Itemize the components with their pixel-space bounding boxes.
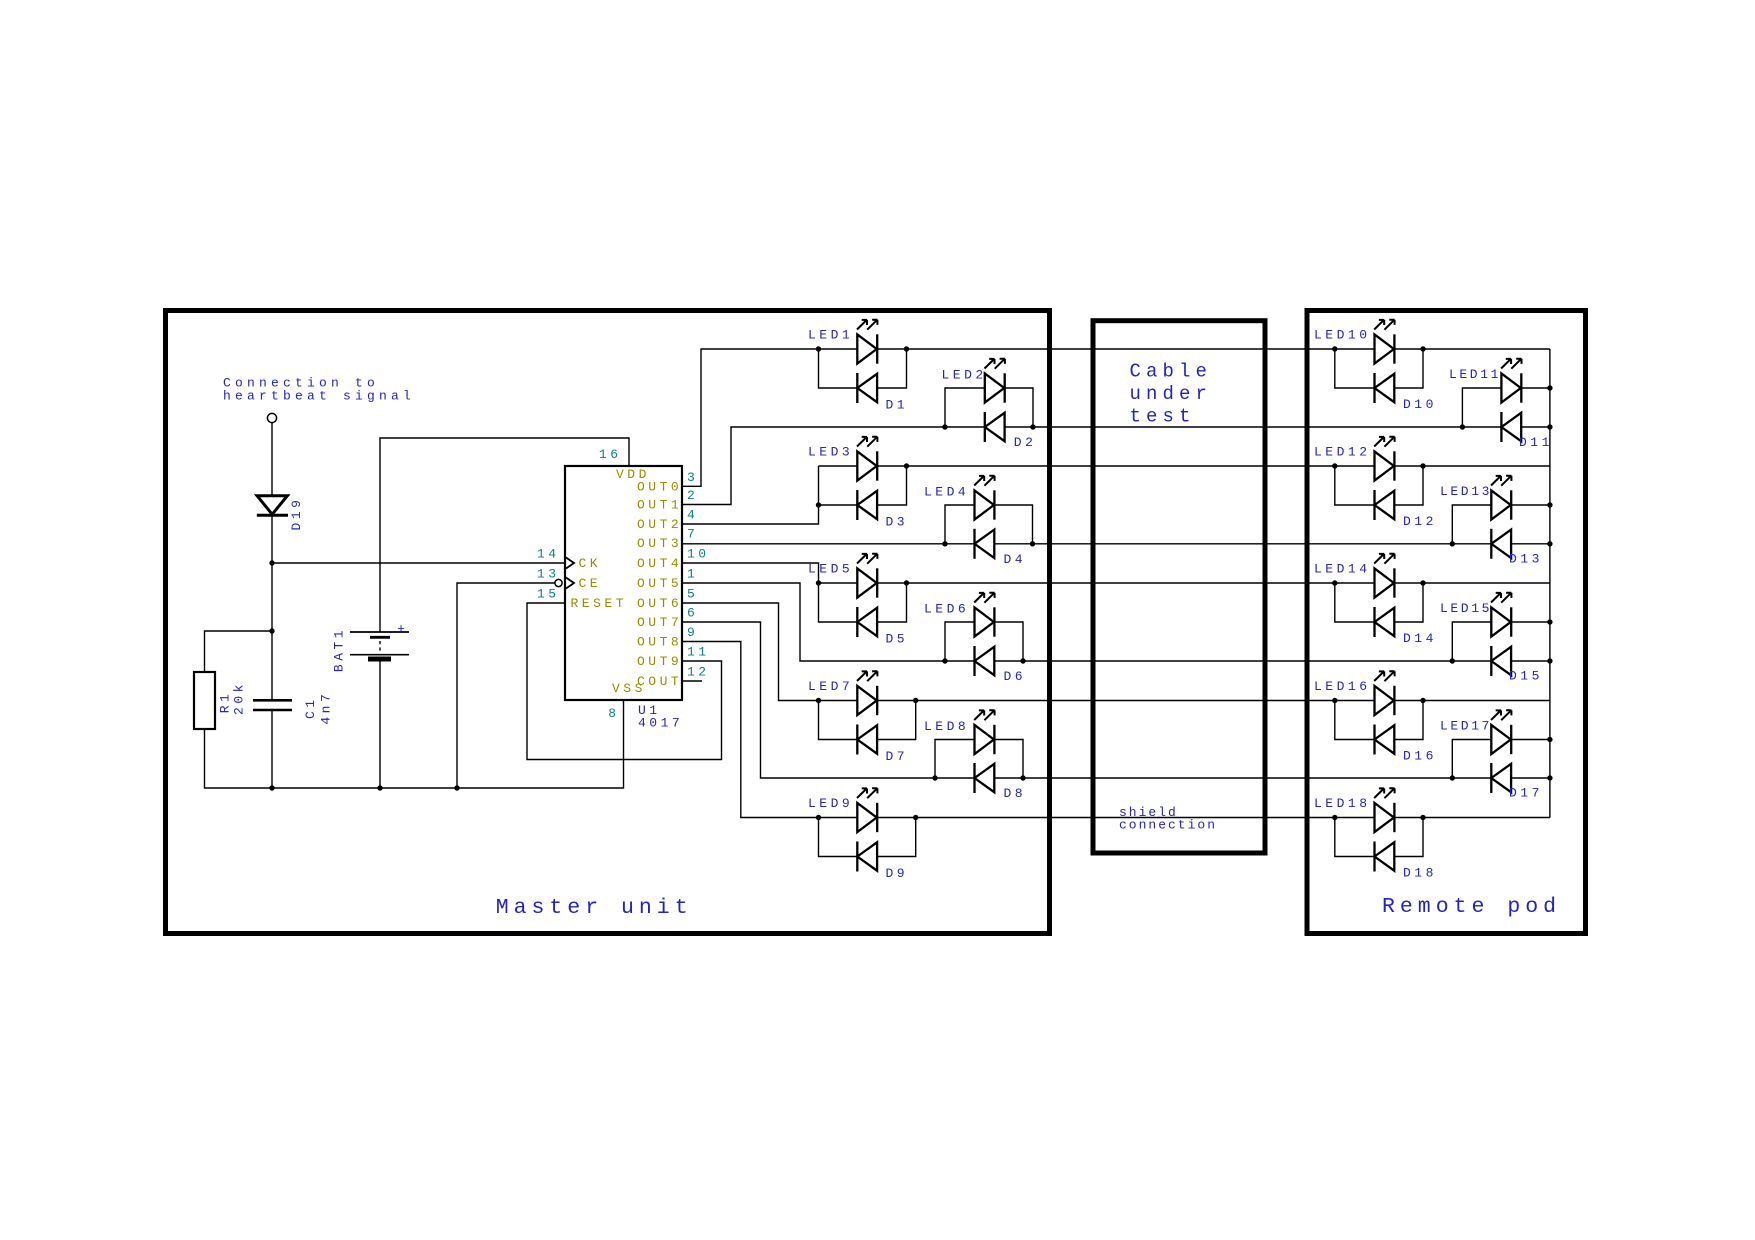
wire OUT2 pin4 feed to LED3 pair <box>682 505 819 524</box>
wire LED15/D15 loop left <box>1452 622 1491 661</box>
junction pair5 left node <box>816 580 821 585</box>
LED LED12 <box>1374 437 1394 481</box>
svg-text:LED15: LED15 <box>1440 601 1492 616</box>
junction pair18 right node <box>1420 815 1425 820</box>
svg-text:VSS: VSS <box>612 681 646 696</box>
svg-text:RESET: RESET <box>571 596 628 611</box>
svg-text:D17: D17 <box>1509 786 1543 801</box>
svg-text:LED11: LED11 <box>1449 367 1501 382</box>
diode D9 <box>857 842 877 872</box>
diode D11 <box>1501 412 1521 442</box>
wire LED11/D11 loop left <box>1462 388 1501 427</box>
svg-text:LED17: LED17 <box>1440 719 1492 734</box>
junction pair4 right node <box>1030 541 1035 546</box>
svg-text:LED9: LED9 <box>808 796 853 811</box>
diode D19 <box>257 496 287 515</box>
wire LED5/D5 loop left <box>819 583 858 622</box>
svg-text:D16: D16 <box>1403 749 1437 764</box>
junction C1 ground node <box>269 785 274 790</box>
diode D5 <box>857 607 877 637</box>
junction pair18 left node <box>1332 815 1337 820</box>
battery BAT1 <box>350 631 409 633</box>
svg-text:D14: D14 <box>1403 631 1437 646</box>
svg-text:LED5: LED5 <box>808 562 853 577</box>
LED LED3 <box>857 437 877 481</box>
wire LED14/D14 loop right <box>1394 583 1423 622</box>
svg-text:LED7: LED7 <box>808 679 853 694</box>
svg-text:2: 2 <box>687 488 698 503</box>
diode D14 <box>1375 607 1395 637</box>
svg-text:CE: CE <box>579 576 602 591</box>
svg-text:OUT6: OUT6 <box>637 596 682 611</box>
wire LED17 top to bus <box>1511 739 1550 741</box>
svg-text:OUT1: OUT1 <box>637 498 682 513</box>
svg-text:D18: D18 <box>1403 866 1437 881</box>
svg-text:test: test <box>1130 406 1196 428</box>
wire CE net from ground rail to U1 pin 13 <box>457 583 555 788</box>
wire CK net to U1 pin 14 <box>272 562 565 564</box>
svg-text:4n7: 4n7 <box>319 691 334 725</box>
svg-text:BAT1: BAT1 <box>332 627 347 672</box>
svg-text:D15: D15 <box>1509 669 1543 684</box>
capacitor C1 <box>253 699 292 702</box>
LED LED2 <box>985 359 1005 403</box>
junction pair2 left node <box>942 424 947 429</box>
svg-text:OUT9: OUT9 <box>637 654 682 669</box>
svg-text:OUT8: OUT8 <box>637 635 682 650</box>
junction pair9 left node <box>816 815 821 820</box>
svg-text:D11: D11 <box>1519 435 1553 450</box>
junction pair9 right node <box>913 815 918 820</box>
wire LED16/D16 loop right <box>1394 701 1423 740</box>
wire OUT3 pin7 conductor 4 to remote bus <box>682 543 1550 545</box>
wire LED9/D9 loop left <box>819 818 858 857</box>
svg-text:7: 7 <box>687 527 698 542</box>
Master unit enclosure <box>166 311 1050 934</box>
svg-text:D19: D19 <box>289 497 304 531</box>
diode D12 <box>1375 490 1395 520</box>
wire LED11 top to bus <box>1521 387 1550 389</box>
junction pair8 left node <box>932 775 937 780</box>
svg-text:D9: D9 <box>886 866 909 881</box>
wire LED10/D10 loop right <box>1394 349 1423 388</box>
wire LED1/D1 loop right <box>877 349 906 388</box>
LED LED9 <box>857 788 877 832</box>
wire OUT4 pin10 feed to LED5 pair <box>682 563 819 583</box>
LED LED16 <box>1374 671 1394 715</box>
diode D13 <box>1491 529 1511 559</box>
svg-text:LED8: LED8 <box>924 719 969 734</box>
svg-text:D7: D7 <box>886 749 909 764</box>
wire LED12/D12 loop right <box>1394 466 1423 505</box>
wire LED12/D12 loop left <box>1335 466 1375 505</box>
wire LED13/D13 loop left <box>1452 505 1491 544</box>
wire OUT1 pin2 conductor 2 to remote bus <box>682 427 1550 505</box>
wire LED6/D6 loop right <box>994 622 1023 661</box>
junction bus node LED13 <box>1547 502 1552 507</box>
diode D4 <box>975 529 995 559</box>
svg-text:D2: D2 <box>1014 435 1037 450</box>
diode D18 <box>1375 842 1395 872</box>
wire LED7/D7 loop left <box>819 701 858 740</box>
svg-text:LED1: LED1 <box>808 328 853 343</box>
junction BAT1 ground node <box>377 785 382 790</box>
wire OUT8 pin9 shield conductor to remote <box>682 642 1550 818</box>
svg-text:OUT5: OUT5 <box>637 576 682 591</box>
junction bus node D17 <box>1547 775 1552 780</box>
svg-text:D12: D12 <box>1403 514 1437 529</box>
junction pair6 left node <box>942 658 947 663</box>
diode D17 <box>1491 763 1511 793</box>
junction bus node LED11 <box>1547 385 1552 390</box>
junction pair14 right node <box>1420 580 1425 585</box>
svg-text:4: 4 <box>687 508 698 523</box>
LED LED1 <box>857 320 877 364</box>
svg-text:CK: CK <box>579 556 602 571</box>
wire branch to R1 top <box>205 631 273 672</box>
svg-text:OUT2: OUT2 <box>637 517 682 532</box>
wire LED4/D4 loop left <box>945 505 975 544</box>
svg-text:OUT7: OUT7 <box>637 615 682 630</box>
svg-text:OUT3: OUT3 <box>637 536 682 551</box>
wire OUT0 pin3 conductor 1 to remote bus <box>682 349 1550 486</box>
wire OUT7 pin6 conductor 8 to remote bus <box>682 622 1550 778</box>
diode D10 <box>1375 373 1395 403</box>
wire OUT5 pin1 conductor 6 to remote bus <box>682 583 1550 661</box>
svg-text:4017: 4017 <box>638 716 683 731</box>
wire remote pod common return bus <box>1549 349 1551 818</box>
svg-text:under: under <box>1130 383 1213 405</box>
diode D7 <box>857 725 877 755</box>
svg-text:14: 14 <box>537 547 560 562</box>
svg-text:D6: D6 <box>1004 669 1027 684</box>
svg-text:D5: D5 <box>886 631 909 646</box>
junction bus node D13 <box>1547 541 1552 546</box>
wire LED16/D16 loop left <box>1335 701 1375 740</box>
svg-text:15: 15 <box>537 587 560 602</box>
svg-text:8: 8 <box>608 706 619 721</box>
svg-text:LED18: LED18 <box>1314 796 1371 811</box>
svg-text:LED13: LED13 <box>1440 484 1492 499</box>
clock symbol CK <box>566 558 574 569</box>
wire LED14/D14 loop left <box>1335 583 1375 622</box>
LED LED10 <box>1374 320 1394 364</box>
junction pair14 left node <box>1332 580 1337 585</box>
junction pair7 right node <box>913 698 918 703</box>
wire LED8/D8 loop left <box>935 740 975 779</box>
junction pair15 left node <box>1450 658 1455 663</box>
wire LED4/D4 loop right <box>994 505 1032 544</box>
wire LED2/D2 loop right <box>1005 388 1033 427</box>
Remote pod enclosure <box>1307 311 1586 934</box>
LED LED14 <box>1374 554 1394 598</box>
junction bus node LED17 <box>1547 737 1552 742</box>
svg-text:9: 9 <box>687 625 698 640</box>
wire LED3/D3 loop right <box>877 466 906 505</box>
junction bus node D15 <box>1547 658 1552 663</box>
diode D3 <box>857 490 877 520</box>
diode D16 <box>1375 725 1395 755</box>
svg-text:13: 13 <box>537 567 560 582</box>
svg-text:3: 3 <box>687 470 698 485</box>
LED LED13 <box>1491 476 1511 520</box>
wire conductor 7 to remote bus <box>819 700 1550 702</box>
LED LED6 <box>974 593 994 637</box>
junction bus node LED15 <box>1547 619 1552 624</box>
svg-text:D3: D3 <box>886 514 909 529</box>
svg-text:D1: D1 <box>886 397 909 412</box>
LED LED17 <box>1491 710 1511 754</box>
junction pair7 left node <box>816 698 821 703</box>
svg-text:Remote pod: Remote pod <box>1382 895 1561 919</box>
svg-text:LED2: LED2 <box>942 368 987 383</box>
wire BAT1 plus to VDD pin 16 <box>380 438 629 632</box>
LED LED7 <box>857 671 877 715</box>
IC U1 4017 body <box>565 466 682 700</box>
LED LED18 <box>1374 788 1394 832</box>
wire LED1/D1 loop left <box>819 349 858 388</box>
svg-text:LED14: LED14 <box>1314 562 1371 577</box>
inversion bubble CE pin 13 <box>555 579 562 586</box>
wire LED9/D9 loop right <box>877 818 916 857</box>
wire LED2/D2 loop left <box>945 388 985 427</box>
LED LED11 <box>1501 359 1521 403</box>
wire BAT1 minus to ground rail <box>379 659 381 788</box>
svg-text:Cable: Cable <box>1130 361 1213 383</box>
diode D6 <box>975 646 995 676</box>
junction pair4 left node <box>942 541 947 546</box>
LED LED15 <box>1491 593 1511 637</box>
junction pair12 left node <box>1332 463 1337 468</box>
junction pair13 left node <box>1450 541 1455 546</box>
wire D19 cathode down to C1, through CK node <box>271 515 273 700</box>
wire LED17/D17 loop left <box>1452 740 1491 779</box>
svg-text:5: 5 <box>687 587 698 602</box>
junction pair6 right node <box>1020 658 1025 663</box>
wire heartbeat terminal to D19 anode <box>271 423 273 496</box>
junction pair16 right node <box>1420 698 1425 703</box>
svg-text:16: 16 <box>599 447 622 462</box>
svg-text:LED12: LED12 <box>1314 445 1371 460</box>
svg-text:D13: D13 <box>1509 552 1543 567</box>
wire conductor 5 to remote bus <box>819 582 1550 584</box>
svg-text:OUT0: OUT0 <box>637 479 682 494</box>
diode D8 <box>975 763 995 793</box>
svg-text:C1: C1 <box>303 696 318 719</box>
diode D2 <box>985 412 1005 442</box>
wire LED7/D7 loop right <box>877 701 916 740</box>
wire conductor 3 to remote bus <box>819 465 1550 467</box>
LED LED5 <box>857 554 877 598</box>
svg-text:LED10: LED10 <box>1314 328 1371 343</box>
wire LED18/D18 loop right <box>1394 818 1423 857</box>
diode D1 <box>857 373 877 403</box>
svg-text:10: 10 <box>687 547 710 562</box>
junction pair11 left node <box>1460 424 1465 429</box>
svg-text:R1: R1 <box>218 691 233 714</box>
junction CE ground node <box>454 785 459 790</box>
svg-text:connection: connection <box>1119 818 1217 833</box>
wire C1 bottom to ground rail <box>271 710 273 788</box>
svg-text:D4: D4 <box>1004 552 1027 567</box>
svg-text:D8: D8 <box>1004 786 1027 801</box>
svg-text:11: 11 <box>687 645 710 660</box>
svg-text:6: 6 <box>687 606 698 621</box>
junction pair1 right node <box>904 346 909 351</box>
wire LED15 top to bus <box>1511 621 1550 623</box>
wire COUT pin 12 stub <box>682 680 702 682</box>
wire ground rail VSS pin8 to R1 bottom <box>205 700 624 788</box>
svg-text:20k: 20k <box>232 681 247 715</box>
junction pair3 right node <box>904 463 909 468</box>
svg-text:12: 12 <box>687 665 710 680</box>
wire OUT6 pin5 feed to LED7 pair <box>682 603 819 701</box>
wire LED3/D3 loop left <box>819 466 858 505</box>
svg-text:D10: D10 <box>1403 397 1437 412</box>
svg-text:Master unit: Master unit <box>496 896 693 920</box>
svg-text:1: 1 <box>687 567 698 582</box>
junction bus node D11 <box>1547 424 1552 429</box>
junction pair16 left node <box>1332 698 1337 703</box>
LED LED4 <box>974 476 994 520</box>
junction pair8 right node <box>1020 775 1025 780</box>
junction pair17 left node <box>1450 775 1455 780</box>
svg-text:LED6: LED6 <box>924 602 969 617</box>
resistor R1 <box>194 672 215 729</box>
wire LED8/D8 loop right <box>994 740 1023 779</box>
junction pair10 right node <box>1420 346 1425 351</box>
wire LED6/D6 loop left <box>945 622 975 661</box>
LED LED8 <box>974 710 994 754</box>
wire LED13 top to bus <box>1511 504 1550 506</box>
junction pair1 left node <box>816 346 821 351</box>
wire LED5/D5 loop right <box>877 583 906 622</box>
svg-text:LED4: LED4 <box>924 485 969 500</box>
junction pair2 right node <box>1030 424 1035 429</box>
svg-text:LED16: LED16 <box>1314 679 1371 694</box>
junction pair10 left node <box>1332 346 1337 351</box>
junction pair5 right node <box>904 580 909 585</box>
clock symbol CE <box>566 578 574 589</box>
junction pair12 right node <box>1420 463 1425 468</box>
svg-text:OUT4: OUT4 <box>637 556 682 571</box>
wire OUT9 pin 11 to RESET pin 15 <box>527 603 722 760</box>
diode D15 <box>1491 646 1511 676</box>
svg-text:heartbeat signal: heartbeat signal <box>223 388 415 403</box>
svg-text:+: + <box>397 622 408 637</box>
junction D19 cathode / CK node <box>269 560 274 565</box>
junction pair3 left node <box>816 502 821 507</box>
svg-text:LED3: LED3 <box>808 445 853 460</box>
wire LED18/D18 loop left <box>1335 818 1375 857</box>
wire LED10/D10 loop left <box>1335 349 1375 388</box>
junction R1 branch node <box>269 628 274 633</box>
Cable under test enclosure <box>1093 321 1265 853</box>
terminal heartbeat input <box>267 413 276 422</box>
